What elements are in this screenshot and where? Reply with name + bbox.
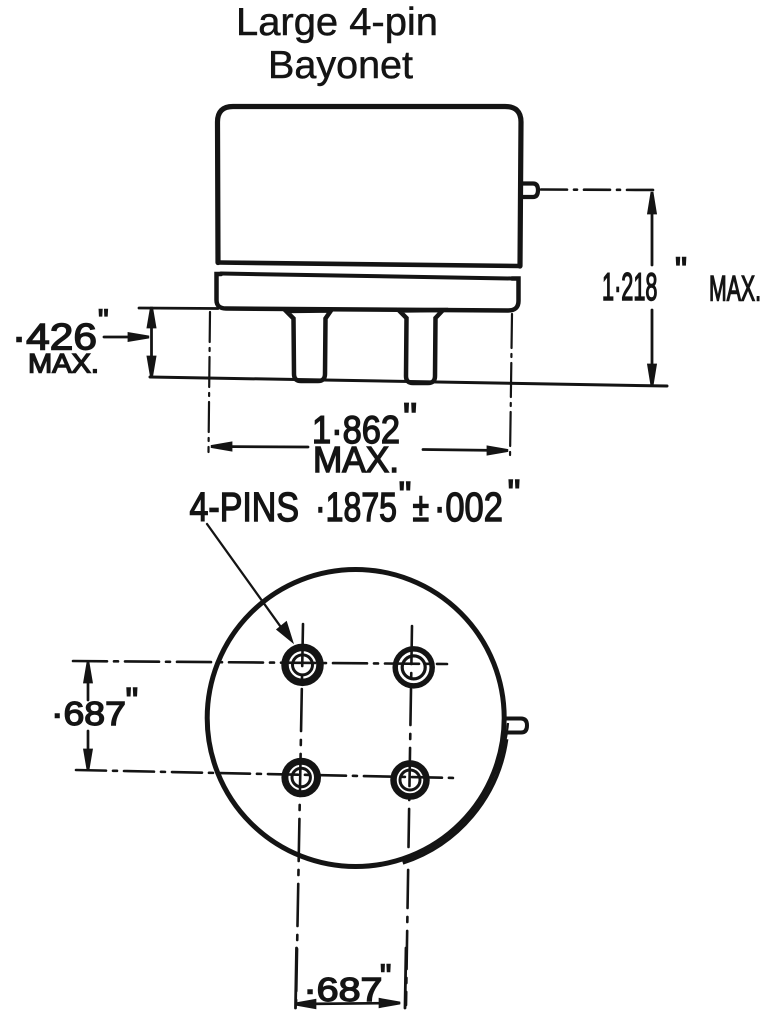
svg-text:MAX.: MAX. [313, 439, 399, 480]
svg-text:": " [399, 474, 412, 515]
svg-text:·002: ·002 [434, 484, 503, 530]
svg-text:MAX.: MAX. [28, 349, 99, 379]
svg-text:Large 4-pin: Large 4-pin [236, 1, 438, 44]
svg-text:4-PINS: 4-PINS [190, 484, 300, 530]
svg-text:": " [126, 680, 139, 721]
svg-text:": " [508, 472, 521, 513]
svg-text:": " [98, 304, 109, 337]
svg-text:1·218: 1·218 [602, 266, 658, 309]
svg-text:·1875: ·1875 [315, 484, 397, 530]
svg-text:·687: ·687 [51, 696, 126, 733]
svg-text:±: ± [413, 484, 430, 530]
svg-text:": " [403, 396, 417, 440]
svg-text:Bayonet: Bayonet [268, 44, 413, 87]
svg-text:": " [675, 251, 687, 289]
svg-text:·687: ·687 [304, 972, 383, 1009]
svg-text:MAX.: MAX. [709, 270, 761, 309]
svg-text:": " [380, 958, 391, 994]
